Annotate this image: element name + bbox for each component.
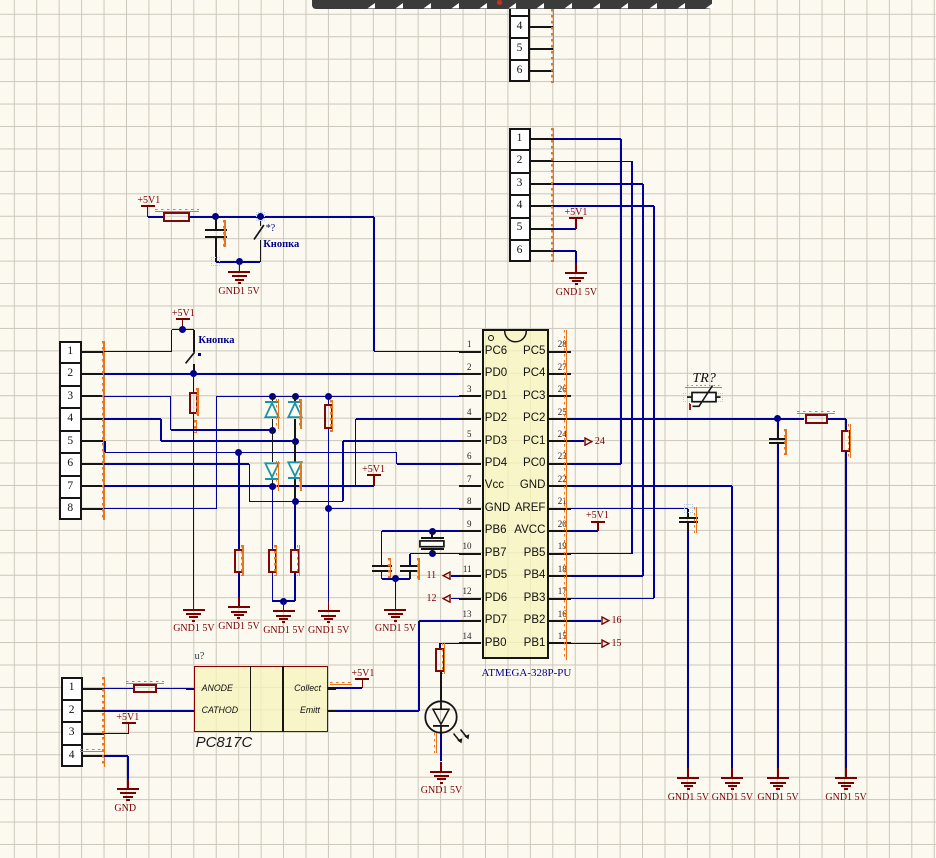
power +5V1: [367, 474, 381, 476]
IC U1 pin 2 number: [467, 363, 472, 372]
IC U1 pin 28 stub: [549, 351, 572, 353]
connector P4 pin 3 stub: [83, 733, 104, 735]
wire P3 pin3: [104, 396, 171, 398]
connector P3 pin 4 stub: [82, 418, 104, 420]
diode D3: [272, 430, 274, 462]
toolbar triangle: [395, 3, 403, 9]
toolbar triangle: [536, 3, 544, 9]
wire P3 pin5 to PD4: [104, 441, 106, 452]
IC U2 pin Collect: [294, 684, 321, 693]
wire to pull resistor R3: [238, 452, 240, 549]
capacitor C3: [687, 509, 689, 518]
ground GND1 5V: [575, 263, 577, 273]
IC U1 pin 26 stub: [549, 395, 572, 397]
wire R4 down: [272, 573, 274, 602]
wire R2 to ground: [193, 414, 195, 599]
junction: [179, 326, 186, 333]
ground GND1 5V: [239, 262, 241, 272]
IC U2 divider: [250, 666, 252, 732]
connector P3 pin 8 number: [59, 503, 81, 515]
capacitor C4: [372, 565, 392, 567]
connector P2 divider: [509, 217, 531, 219]
capacitor C5: [400, 565, 420, 567]
IC U1 pin 18 stub: [549, 575, 572, 577]
wire P3 pin7 to +5V1: [104, 485, 374, 487]
toolbar red dot: [497, 0, 502, 5]
wire C2 to ground: [777, 445, 779, 768]
IC U1 pin 6 name PD4: [485, 458, 507, 470]
wire P4 pin3 to +5V1: [104, 733, 128, 735]
connector P3 pin 3 stub: [82, 395, 104, 397]
connector P2 pin 1 number: [509, 133, 531, 145]
junction: [429, 528, 436, 535]
connector P2 pin 5 stub: [530, 228, 553, 230]
wire D4 to resistor R5: [294, 502, 296, 550]
IC U1 pin 7 number: [467, 475, 472, 484]
switch S1 Knopka: [260, 217, 262, 226]
IC U1 label: [482, 668, 572, 679]
wire PB2 to port 16: [571, 620, 601, 622]
connector P1 pin 4 number: [509, 21, 531, 33]
junction: [269, 427, 276, 434]
wire P3 pin1: [104, 351, 172, 353]
wire PB6 to crystal: [382, 530, 460, 532]
port arrow 11: [442, 571, 451, 580]
thermistor TR?: [693, 372, 716, 386]
resistor R6: [324, 404, 334, 429]
wire chip GND pin8 branch: [329, 508, 460, 510]
IC U1 pin 17 number: [558, 587, 567, 596]
junction: [269, 483, 276, 490]
wire P3 pin4: [104, 418, 162, 420]
connector P1 pin 5 number: [509, 43, 531, 55]
resistor R5: [290, 549, 300, 573]
connector P1 pin 6 number: [509, 65, 531, 77]
port arrow 12: [442, 594, 451, 603]
IC U1 pin 21 stub: [549, 508, 572, 510]
wire cap to switch: [216, 261, 261, 263]
wire P2 pin2 to PB5: [553, 161, 632, 163]
toolbar fragment: [312, 0, 712, 9]
IC U1 pin 12 name PD6: [485, 593, 507, 605]
IC U1 pin 16 name PB2: [524, 615, 546, 627]
IC U1 pin 27 number: [558, 363, 567, 372]
IC U1 pin 7 stub: [459, 485, 481, 487]
toolbar triangle: [705, 3, 713, 9]
IC U1 pin 1 name PC6: [485, 346, 507, 358]
IC U1 pin 11 number: [463, 565, 472, 574]
wire +5V1 node: [172, 329, 194, 331]
wire P4 pin1 to resistor R10: [104, 688, 132, 690]
junction: [392, 575, 399, 582]
IC U1 pin 28 number: [558, 340, 567, 349]
IC U1 pin 14 stub: [459, 642, 481, 644]
IC U2 pin stubs: [186, 688, 194, 690]
wire P2 pin6 to ground: [553, 250, 577, 252]
IC U1 pin 19 number: [558, 542, 567, 551]
power +5V1: [591, 521, 605, 523]
connector P2 pin 1 stub: [530, 138, 553, 140]
ground GND1 5V: [845, 768, 847, 778]
junction: [235, 449, 242, 456]
IC U1 pin 20 name AVCC: [514, 525, 545, 537]
toolbar triangle: [367, 3, 375, 9]
IC U1 pin 27 stub: [549, 373, 572, 375]
IC U1 pin 5 name PD3: [485, 436, 507, 448]
wire to ground: [395, 579, 397, 600]
IC U1 pin 18 name PB4: [524, 570, 546, 582]
IC U1 pin 15 name PB1: [524, 638, 546, 650]
power +5V1: [355, 678, 369, 680]
IC U1 pin 23 name PC0: [523, 458, 545, 470]
IC U1 pin 4 stub: [459, 418, 481, 420]
IC U1 pin 22 name GND: [520, 480, 546, 492]
IC U1 pin 25 name PC2: [523, 413, 545, 425]
IC U1 pin 10 stub: [459, 553, 481, 555]
ground GND1 5V: [283, 601, 285, 611]
connector P3 pin 4 number: [59, 413, 81, 425]
IC U1 pin 26 name PC3: [523, 391, 545, 403]
IC U1 pin 21 name AREF: [515, 503, 546, 515]
wire P4 pin4 to ground: [104, 755, 128, 757]
IC U1 pin 4 number: [467, 408, 472, 417]
toolbar triangle: [451, 3, 459, 9]
wire PD1 branch: [216, 396, 459, 398]
ground GND1 5V: [193, 600, 195, 610]
connector P3 pin 2 number: [59, 368, 81, 380]
IC U1 pin 25 stub: [549, 418, 572, 420]
IC U1 pin 27 name PC4: [523, 368, 545, 380]
connector P2 pin 5 number: [509, 222, 531, 234]
wire PB0 to resistor R9: [440, 643, 459, 645]
connector P2 pin 3 number: [509, 178, 531, 190]
junction: [236, 258, 243, 265]
connector P3 divider: [59, 407, 81, 409]
wire P2 pin4 to PB3: [553, 205, 654, 207]
wire C4-C5 join: [382, 578, 410, 580]
wire S2 to resistor R2: [193, 374, 195, 392]
connector P3 divider: [59, 362, 81, 364]
connector P4 pin 1 stub: [83, 688, 104, 690]
IC U2 pin CATHOD: [202, 706, 239, 715]
connector P1 divider: [509, 59, 531, 61]
IC U1 pin 9 number: [467, 520, 472, 529]
junction: [292, 498, 299, 505]
IC U2 PC817C body: [194, 666, 328, 732]
IC U1 pin 10 number: [463, 542, 472, 551]
IC U1 pin 15 number: [558, 632, 567, 641]
wire AREF to C3: [571, 508, 688, 510]
wire PC2 net: [571, 418, 804, 420]
IC U1 pin 16 number: [558, 610, 567, 619]
wire R7 to R8: [828, 418, 846, 420]
IC U1 pin 5 stub: [459, 440, 481, 442]
connector P2 pin 4 stub: [530, 205, 553, 207]
IC U1 pin 17 stub: [549, 598, 572, 600]
wire PD3 branch: [343, 440, 459, 442]
IC U1 pin 6 number: [467, 452, 472, 461]
resistor R3: [234, 549, 244, 573]
diode D4: [294, 441, 296, 462]
label *: [198, 353, 201, 356]
IC U1 pin 11 stub: [459, 575, 481, 577]
power +5V1: [569, 217, 583, 219]
connector P3 divider: [59, 475, 81, 477]
wire PD6 to port 12: [451, 598, 460, 600]
wire down to pin1 row: [171, 330, 173, 352]
IC U1 pin 9 stub: [459, 530, 481, 532]
junction: [212, 213, 219, 220]
wire P3 pin2 to PD0: [104, 373, 460, 375]
IC U1 pin 26 number: [558, 385, 567, 394]
wire P3 pin6: [249, 464, 251, 502]
IC U1 pin1 mark: [488, 335, 494, 341]
wire PD2 branch: [356, 418, 460, 420]
wire down to PC6: [373, 217, 375, 352]
toolbar triangle: [508, 3, 516, 9]
IC U1 pin 23 number: [558, 452, 567, 461]
wire PB7 branch to C5: [409, 554, 411, 567]
resistor R7: [805, 414, 829, 424]
IC U1 pin 12 number: [463, 587, 472, 596]
connector P3 divider: [59, 452, 81, 454]
IC U1 pin 2 name PD0: [485, 368, 507, 380]
wire P2 pin1 to PC0: [553, 138, 621, 140]
connector P4: [61, 677, 83, 767]
IC U1 pin 6 stub: [459, 463, 481, 465]
IC U1 pin 19 stub: [549, 553, 572, 555]
diode D2: [294, 396, 296, 402]
toolbar triangle: [479, 3, 487, 9]
wire R8 to ground: [845, 452, 847, 768]
snap marks: [684, 504, 693, 513]
capacitor C2: [777, 419, 779, 439]
power +5V1: [176, 318, 190, 320]
toolbar triangle: [592, 3, 600, 9]
junction: [325, 505, 332, 512]
IC U1 pin 3 name PD1: [485, 391, 507, 403]
connector P3 pin 2 stub: [82, 373, 104, 375]
toolbar triangle: [649, 3, 657, 9]
ground GND1 5V: [238, 597, 240, 607]
wire R5 down: [294, 573, 296, 602]
ground GND1 5V: [328, 601, 330, 611]
connector P2 pin 6 number: [509, 245, 531, 257]
IC U1 pin 4 name PD2: [485, 413, 507, 425]
connector P1 divider: [509, 15, 531, 17]
connector P4 pin 1 number: [61, 682, 83, 694]
IC U1 pin 20 stub: [549, 530, 572, 532]
IC U1 pin 3 number: [467, 385, 472, 394]
resistor R9: [435, 648, 445, 673]
wire R4-R5 join: [272, 600, 295, 602]
connector P4 pin 3 number: [61, 727, 83, 739]
toolbar triangle: [423, 3, 431, 9]
connector P2 pin 2 number: [509, 155, 531, 167]
IC U1 pin 24 stub: [549, 440, 572, 442]
wire Collect to +5V1: [328, 687, 362, 689]
IC U1 pin 8 name GND: [485, 503, 511, 515]
wire P3 pin3 row to chip PD1 junctions: [269, 393, 276, 400]
ground GND1 5V: [777, 768, 779, 778]
connector P3 pin 6 stub: [82, 463, 104, 465]
connector P3 pin 7 stub: [82, 485, 104, 487]
IC U2 divider: [282, 666, 284, 732]
IC U1 pin 2 stub: [459, 373, 481, 375]
wire R6 top: [328, 396, 330, 404]
ground GND1 5V: [395, 600, 397, 610]
IC U2 designator u?: [195, 652, 205, 663]
connector P1 pin 5 stub: [530, 48, 553, 50]
resistor R2: [189, 392, 199, 414]
connector P3 pin 1 stub: [82, 351, 104, 353]
no-connect marker P2: [553, 128, 554, 263]
connector P3 pin 6 number: [59, 458, 81, 470]
toolbar triangle: [564, 3, 572, 9]
port arrow 16: [601, 616, 610, 625]
selection marker U1 right: [566, 330, 567, 660]
label Knopka: [198, 336, 234, 347]
switch S2 Knopka: [193, 330, 195, 352]
connector P2 pin 3 stub: [530, 183, 553, 185]
connector P3 pin 1 number: [59, 346, 81, 358]
IC U1 pin 13 stub: [459, 620, 481, 622]
wire P2 pin5 to +5V1: [553, 228, 577, 230]
wire +5V1 to resistor R1: [148, 216, 163, 218]
connector P3 pin 5 stub: [82, 440, 104, 442]
IC U1 pin 20 number: [558, 520, 567, 529]
IC U1 pin 24 number: [558, 430, 567, 439]
connector P4 divider: [61, 699, 83, 701]
connector P2: [509, 128, 531, 263]
IC U2 pin Emitt: [300, 706, 320, 715]
connector P3 pin 5 number: [59, 436, 81, 448]
wire PD5 to port 11: [451, 575, 460, 577]
capacitor C1: [215, 217, 217, 230]
ground GND1 5V: [687, 768, 689, 778]
junction: [292, 438, 299, 445]
IC U2 pin ANODE: [202, 684, 233, 693]
connector P2 pin 4 number: [509, 200, 531, 212]
resistor R10: [133, 684, 157, 694]
LED D5: [424, 700, 474, 752]
wire P2 pin3 to PB4: [553, 183, 643, 185]
IC U1 pin 11 name PD5: [485, 570, 507, 582]
junction: [190, 370, 197, 377]
diode D1: [272, 396, 274, 402]
IC U1 pin 14 name PB0: [485, 638, 507, 650]
connector P2 divider: [509, 194, 531, 196]
IC U1 pin 15 stub: [549, 642, 572, 644]
IC U1 pin 5 number: [467, 430, 472, 439]
wire P4 pin2 to CATHOD: [104, 710, 194, 712]
IC U1 pin 8 number: [467, 497, 472, 506]
IC U1 pin 8 stub: [459, 508, 481, 510]
wire C3 to ground: [687, 522, 689, 531]
port arrow 15: [601, 639, 610, 648]
wire R10 to ANODE: [157, 688, 194, 690]
crystal X1: [431, 531, 433, 538]
wire to chip PC6: [374, 351, 459, 353]
IC U2 label PC817C: [196, 735, 253, 750]
IC U1 pin 3 stub: [459, 395, 481, 397]
IC U1 pin 10 name PB7: [485, 548, 507, 560]
wire AVCC to +5V1: [571, 530, 598, 532]
wire PD7 to optocoupler: [419, 620, 459, 622]
IC U1 pin 9 name PB6: [485, 525, 507, 537]
IC U1 pin 13 number: [463, 610, 472, 619]
connector P2 divider: [509, 149, 531, 151]
junction: [774, 415, 781, 422]
connector P4 divider: [61, 744, 83, 746]
connector P2 divider: [509, 172, 531, 174]
connector P1 (pins 4-6): [509, 0, 531, 82]
IC U1 pin 22 stub: [549, 485, 572, 487]
ground GND1 5V: [731, 768, 733, 778]
wire D3 to resistor R4: [272, 486, 274, 549]
IC U1 pin 24 name PC1: [523, 436, 545, 448]
power +5V1: [122, 722, 136, 724]
connector P3 pin 7 number: [59, 481, 81, 493]
IC U1 pin 16 stub: [549, 620, 572, 622]
IC U1 ATMEGA-328P-PU body: [482, 329, 549, 659]
connector P4 pin 2 number: [61, 705, 83, 717]
connector P4 pin 4 stub: [83, 755, 104, 757]
no-connect marker P3: [103, 341, 104, 521]
junction: [280, 598, 287, 605]
wire PC1 to port 24: [571, 440, 584, 442]
wire P3 pin8: [104, 508, 217, 510]
toolbar triangle: [620, 3, 628, 9]
connector P4 pin 2 stub: [83, 710, 104, 712]
wire PB7 to crystal: [410, 553, 459, 555]
IC U1 pin 17 name PB3: [524, 593, 546, 605]
connector P3 pin 8 stub: [82, 508, 104, 510]
connector P3 divider: [59, 497, 81, 499]
IC U1 pin 18 number: [558, 565, 567, 574]
IC U1 notch: [504, 331, 527, 343]
connector P1 pin 6 stub: [530, 70, 553, 72]
IC U1 pin 23 stub: [549, 463, 572, 465]
connector P4 pin 4 number: [61, 750, 83, 762]
label Knopka: [263, 240, 299, 251]
connector P2 divider: [509, 239, 531, 241]
resistor R4: [268, 549, 278, 573]
toolbar triangle: [677, 3, 685, 9]
connector P3 divider: [59, 430, 81, 432]
connector P4 divider: [61, 721, 83, 723]
wire R3 to ground: [238, 573, 240, 598]
port arrow 24: [584, 437, 593, 446]
wire PB6 branch to C4: [381, 531, 383, 566]
junction: [429, 550, 436, 557]
wire LED to ground: [440, 733, 442, 762]
connector P3 divider: [59, 385, 81, 387]
junction: [257, 213, 264, 220]
IC U1 pin 21 number: [558, 497, 567, 506]
IC U1 pin 13 name PD7: [485, 615, 507, 627]
power +5V1: [141, 205, 155, 207]
no-connect marker P4: [104, 677, 105, 767]
IC U1 pin 28 name PC5: [523, 346, 545, 358]
wire R6 to ground: [328, 429, 330, 601]
no-connect marker P1: [553, 9, 554, 83]
wire GND pin22: [571, 485, 732, 487]
IC U1 pin 1 number: [467, 340, 472, 349]
resistor R1: [163, 212, 190, 222]
connector P3: [59, 341, 81, 521]
ground GND1 5V: [440, 762, 442, 772]
